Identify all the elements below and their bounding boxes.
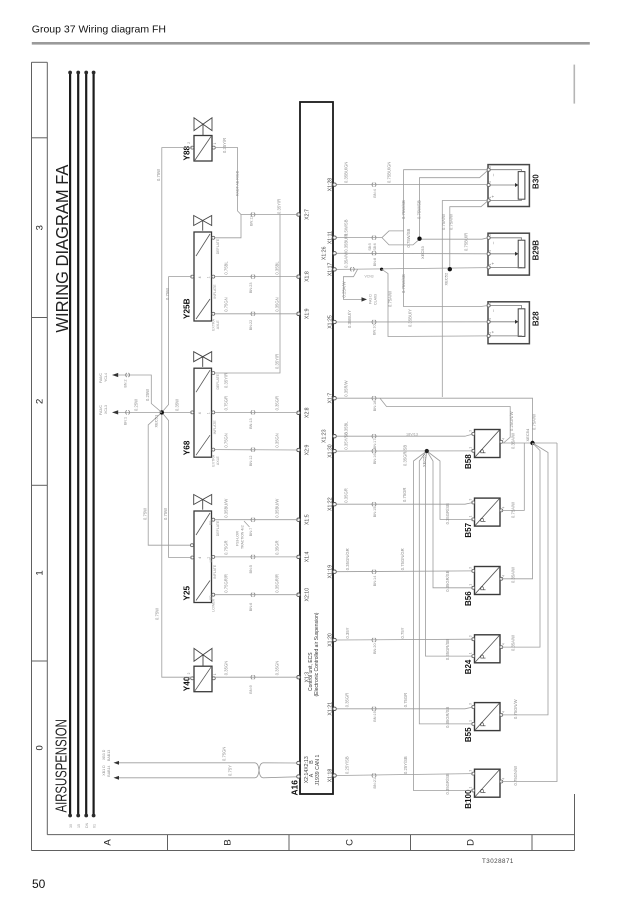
svg-text:Group 37 Wiring diagram FH: Group 37 Wiring diagram FH xyxy=(32,23,166,35)
svg-text:1: 1 xyxy=(469,652,473,654)
svg-text:0.35BU/Y: 0.35BU/Y xyxy=(408,309,413,327)
svg-text:YCL4: YCL4 xyxy=(104,373,108,382)
svg-text:X1:28: X1:28 xyxy=(327,178,333,192)
svg-text:XB3 D: XB3 D xyxy=(102,749,106,760)
svg-text:0.75A/W: 0.75A/W xyxy=(441,214,446,230)
svg-text:0.75BU/R: 0.75BU/R xyxy=(464,233,469,251)
svg-text:0.35GN: 0.35GN xyxy=(275,433,280,447)
svg-text:XEC55: XEC55 xyxy=(421,454,426,467)
svg-text:SB:6: SB:6 xyxy=(373,243,377,250)
svg-text:0.75A/W: 0.75A/W xyxy=(531,414,536,430)
svg-text:0.75GN/W: 0.75GN/W xyxy=(513,699,518,719)
svg-text:0.35Y/R: 0.35Y/R xyxy=(275,354,280,369)
svg-text:0.35GR: 0.35GR xyxy=(345,693,350,707)
svg-text:RADT AB RIGD: RADT AB RIGD xyxy=(236,170,240,196)
svg-text:0.25W: 0.25W xyxy=(134,399,139,411)
svg-text:0.35GR: 0.35GR xyxy=(344,488,349,502)
svg-text:3: 3 xyxy=(469,703,473,705)
svg-text:2: 2 xyxy=(187,142,191,144)
svg-text:4: 4 xyxy=(502,506,506,508)
svg-text:0.25Y/SB: 0.25Y/SB xyxy=(345,756,350,774)
svg-text:X2:7: X2:7 xyxy=(304,209,310,220)
svg-text:X1:7: X1:7 xyxy=(327,393,333,404)
svg-text:EXTRA: EXTRA xyxy=(212,318,216,330)
svg-text:1: 1 xyxy=(213,143,217,145)
svg-text:1: 1 xyxy=(469,515,473,517)
svg-text:0.35BU/R: 0.35BU/R xyxy=(344,234,349,252)
svg-text:BN:22: BN:22 xyxy=(249,320,253,331)
svg-text:0.35Y/R: 0.35Y/R xyxy=(277,199,282,214)
svg-text:0.35GN: 0.35GN xyxy=(275,661,280,675)
svg-text:4: 4 xyxy=(502,778,506,780)
svg-text:1: 1 xyxy=(469,447,473,449)
svg-text:0.35GR/SB: 0.35GR/SB xyxy=(403,445,408,466)
svg-text:0.75W: 0.75W xyxy=(143,508,148,520)
svg-text:0.35GN: 0.35GN xyxy=(224,661,229,675)
svg-text:0.35GR/SB: 0.35GR/SB xyxy=(445,707,450,728)
svg-text:J1939 CAN 1: J1939 CAN 1 xyxy=(315,755,321,786)
svg-text:X2:9: X2:9 xyxy=(304,445,310,456)
svg-text:Y25B: Y25B xyxy=(183,298,192,319)
svg-text:0.5W/SB: 0.5W/SB xyxy=(344,219,349,236)
svg-text:XEC51: XEC51 xyxy=(154,414,159,427)
svg-text:0: 0 xyxy=(35,745,46,750)
svg-text:1: 1 xyxy=(469,720,473,722)
svg-text:0.75W: 0.75W xyxy=(163,508,168,520)
svg-text:4: 4 xyxy=(488,181,492,183)
svg-text:X1:20: X1:20 xyxy=(327,633,333,647)
svg-text:4: 4 xyxy=(198,412,202,414)
svg-text:B29B: B29B xyxy=(532,240,541,261)
svg-text:0.35Y/R: 0.35Y/R xyxy=(224,373,229,388)
svg-text:CLA63: CLA63 xyxy=(374,294,378,305)
svg-text:FA6/C: FA6/C xyxy=(99,373,103,383)
svg-text:1: 1 xyxy=(35,570,46,575)
svg-text:3: 3 xyxy=(35,225,46,230)
svg-text:X1:11: X1:11 xyxy=(327,231,333,244)
svg-text:X1:9: X1:9 xyxy=(304,308,310,319)
svg-text:T3028871: T3028871 xyxy=(482,858,514,865)
svg-text:BN:15: BN:15 xyxy=(373,507,377,518)
svg-text:X1:22: X1:22 xyxy=(327,497,333,511)
svg-text:A: A xyxy=(102,839,113,846)
svg-text:1: 1 xyxy=(488,332,492,334)
svg-text:B55: B55 xyxy=(464,727,473,742)
svg-text:DEFLATE: DEFLATE xyxy=(216,238,220,254)
svg-text:BN:19: BN:19 xyxy=(373,711,377,722)
svg-text:0.35W: 0.35W xyxy=(175,399,180,411)
svg-text:0.35GR/R: 0.35GR/R xyxy=(275,574,280,593)
svg-text:B58: B58 xyxy=(464,454,473,469)
svg-text:0.35BU/W: 0.35BU/W xyxy=(224,499,229,518)
svg-text:4: 4 xyxy=(488,318,492,320)
svg-text:X2:10: X2:10 xyxy=(304,588,310,602)
svg-text:X1:21: X1:21 xyxy=(327,702,333,716)
svg-text:B: B xyxy=(222,839,233,845)
svg-text:0.75GR/R: 0.75GR/R xyxy=(224,574,229,593)
svg-text:XEC53: XEC53 xyxy=(420,246,425,259)
svg-text:B24: B24 xyxy=(464,659,473,674)
svg-text:0.75A/W: 0.75A/W xyxy=(388,291,393,307)
svg-text:WIRING DIAGRAM FA: WIRING DIAGRAM FA xyxy=(52,164,71,333)
svg-text:SB:5: SB:5 xyxy=(368,243,372,250)
svg-text:4: 4 xyxy=(198,276,202,278)
svg-text:50: 50 xyxy=(32,877,46,891)
svg-text:BN:5: BN:5 xyxy=(249,565,253,573)
svg-text:BN:13: BN:13 xyxy=(249,418,253,429)
svg-text:1: 1 xyxy=(213,673,217,675)
svg-text:0.75W/SB: 0.75W/SB xyxy=(406,228,411,247)
svg-text:EXTRA: EXTRA xyxy=(212,454,216,466)
svg-text:P: P xyxy=(479,586,488,591)
svg-text:4: 4 xyxy=(502,575,506,577)
svg-text:XEC52: XEC52 xyxy=(443,272,448,285)
svg-text:P: P xyxy=(479,654,488,659)
svg-text:1: 1 xyxy=(469,584,473,586)
svg-text:BN:21: BN:21 xyxy=(373,778,377,789)
svg-text:0.35R/W: 0.35R/W xyxy=(344,380,349,396)
svg-text:INFLATE: INFLATE xyxy=(213,564,217,579)
svg-text:0.35A/W: 0.35A/W xyxy=(510,635,515,651)
svg-text:X1:4: X1:4 xyxy=(304,551,310,562)
svg-text:X1:26: X1:26 xyxy=(321,246,327,260)
svg-text:A16: A16 xyxy=(290,780,300,796)
svg-text:INFLATE: INFLATE xyxy=(213,420,217,435)
svg-text:0.35GR/SB: 0.35GR/SB xyxy=(445,503,450,524)
svg-text:X2:8: X2:8 xyxy=(304,407,310,418)
svg-text:X1:5: X1:5 xyxy=(304,514,310,525)
svg-text:B28: B28 xyxy=(532,311,541,326)
svg-text:0.75A/W: 0.75A/W xyxy=(448,214,453,230)
svg-text:BN:14: BN:14 xyxy=(373,576,377,587)
svg-text:15: 15 xyxy=(77,824,81,828)
svg-text:0.75GR: 0.75GR xyxy=(224,396,229,410)
svg-text:2: 2 xyxy=(488,302,492,304)
svg-text:0.25A/W: 0.25A/W xyxy=(342,281,347,297)
svg-text:BN:1: BN:1 xyxy=(124,417,128,425)
svg-text:AIRSUSPENSION: AIRSUSPENSION xyxy=(52,719,70,812)
svg-text:XCL3: XCL3 xyxy=(104,405,108,414)
svg-text:0.75W: 0.75W xyxy=(156,169,161,181)
svg-text:(Electronic Controlled air Sus: (Electronic Controlled air Suspension) xyxy=(314,612,320,696)
svg-text:0.75GR: 0.75GR xyxy=(224,540,229,554)
svg-text:0.75GN: 0.75GN xyxy=(224,433,229,447)
svg-text:BN:7: BN:7 xyxy=(249,528,253,536)
svg-text:0.35GN/GR: 0.35GN/GR xyxy=(345,548,350,570)
svg-text:0.35Y: 0.35Y xyxy=(345,627,350,638)
svg-text:BN:12: BN:12 xyxy=(249,456,253,467)
svg-text:X1:23: X1:23 xyxy=(321,429,327,443)
svg-text:X1:30: X1:30 xyxy=(327,444,333,458)
svg-text:3: 3 xyxy=(469,499,473,501)
svg-text:1: 1 xyxy=(469,787,473,789)
svg-text:BAB13: BAB13 xyxy=(107,750,111,761)
svg-text:0.75GR: 0.75GR xyxy=(403,693,408,707)
svg-text:2: 2 xyxy=(488,234,492,236)
svg-text:0.75W/SB: 0.75W/SB xyxy=(401,200,406,219)
svg-text:0.75GR: 0.75GR xyxy=(402,488,407,502)
svg-text:4: 4 xyxy=(502,643,506,645)
svg-text:UD: UD xyxy=(209,595,213,600)
svg-text:0.35BU/Y: 0.35BU/Y xyxy=(347,310,352,328)
svg-text:0.75W/SB: 0.75W/SB xyxy=(401,274,406,293)
svg-text:FS3-LOW: FS3-LOW xyxy=(236,530,240,546)
svg-text:B56: B56 xyxy=(464,591,473,606)
svg-text:0.35A/W: 0.35A/W xyxy=(344,252,349,268)
svg-text:0.75GN/W: 0.75GN/W xyxy=(513,766,518,786)
svg-text:Y25: Y25 xyxy=(183,585,192,600)
svg-text:1: 1 xyxy=(488,263,492,265)
svg-text:AXLE: AXLE xyxy=(216,455,220,465)
svg-text:0.35BL: 0.35BL xyxy=(275,261,280,275)
svg-text:0.35GN: 0.35GN xyxy=(275,297,280,311)
svg-text:BN:20: BN:20 xyxy=(373,643,377,654)
svg-text:B57: B57 xyxy=(464,522,473,537)
svg-text:2: 2 xyxy=(488,166,492,168)
svg-text:X1:25: X1:25 xyxy=(327,315,333,329)
svg-text:C: C xyxy=(344,839,355,846)
svg-text:18V/13: 18V/13 xyxy=(406,433,418,437)
svg-text:4: 4 xyxy=(198,557,202,559)
svg-text:61: 61 xyxy=(93,824,97,828)
svg-text:0.35Y/SB: 0.35Y/SB xyxy=(344,432,349,450)
svg-text:0.75Y: 0.75Y xyxy=(228,765,233,776)
svg-text:BN:8: BN:8 xyxy=(373,258,377,266)
svg-text:DN: DN xyxy=(85,822,89,828)
svg-text:0.35GR: 0.35GR xyxy=(275,540,280,554)
svg-text:4: 4 xyxy=(488,250,492,252)
svg-text:INFLATE: INFLATE xyxy=(213,284,217,299)
svg-text:30: 30 xyxy=(69,824,73,828)
svg-text:0.75GN: 0.75GN xyxy=(222,747,227,761)
svg-text:0.35GR/SB: 0.35GR/SB xyxy=(445,570,450,591)
svg-text:0.75BU/GN: 0.75BU/GN xyxy=(387,162,392,183)
svg-text:BN:17: BN:17 xyxy=(373,439,377,450)
svg-text:TRACTION 4x2: TRACTION 4x2 xyxy=(241,525,245,549)
svg-text:1: 1 xyxy=(207,412,211,414)
svg-text:0.35BU/GN: 0.35BU/GN xyxy=(344,162,349,183)
svg-text:Y40: Y40 xyxy=(183,676,192,691)
svg-text:BN:9: BN:9 xyxy=(249,685,253,693)
svg-text:AXLE: AXLE xyxy=(216,320,220,330)
svg-text:0.75GN: 0.75GN xyxy=(224,297,229,311)
svg-text:0.25W: 0.25W xyxy=(145,389,150,401)
svg-text:0.75A/W: 0.75A/W xyxy=(511,502,516,518)
svg-text:VCN3: VCN3 xyxy=(365,275,374,279)
svg-text:0.75W: 0.75W xyxy=(155,608,160,620)
svg-text:3: 3 xyxy=(469,770,473,772)
svg-text:2: 2 xyxy=(35,399,46,404)
svg-text:BN:23: BN:23 xyxy=(249,283,253,294)
svg-text:DEFLATE: DEFLATE xyxy=(216,373,220,389)
svg-text:0.35GR/SB: 0.35GR/SB xyxy=(445,773,450,794)
svg-text:Y68: Y68 xyxy=(183,440,192,455)
svg-text:3: 3 xyxy=(469,635,473,637)
svg-text:X1:3: X1:3 xyxy=(304,672,310,683)
svg-text:XEC54: XEC54 xyxy=(525,428,530,441)
svg-text:DEFLATE: DEFLATE xyxy=(216,520,220,536)
svg-text:X1:19: X1:19 xyxy=(327,565,333,579)
svg-text:0.35GR: 0.35GR xyxy=(275,396,280,410)
svg-text:RB: RB xyxy=(209,520,213,525)
svg-text:0.75W: 0.75W xyxy=(165,288,170,300)
svg-text:3: 3 xyxy=(469,567,473,569)
svg-text:FA3/C: FA3/C xyxy=(99,405,103,415)
svg-text:0.35GR/SB: 0.35GR/SB xyxy=(445,639,450,660)
svg-text:X1:17: X1:17 xyxy=(327,263,333,277)
svg-text:P: P xyxy=(479,449,488,454)
svg-text:B30: B30 xyxy=(532,174,541,189)
svg-text:P: P xyxy=(479,517,488,522)
svg-text:P: P xyxy=(479,788,488,793)
svg-text:0.75Y: 0.75Y xyxy=(400,627,405,638)
svg-text:0.75GN/GR: 0.75GN/GR xyxy=(400,548,405,570)
svg-text:BAB14: BAB14 xyxy=(107,765,111,776)
svg-text:0.35BU/W: 0.35BU/W xyxy=(275,499,280,518)
svg-text:1: 1 xyxy=(207,276,211,278)
svg-text:0.35Y/R: 0.35Y/R xyxy=(222,138,227,153)
svg-text:0.25GN/W: 0.25GN/W xyxy=(509,411,514,431)
svg-text:XB1 D: XB1 D xyxy=(102,765,106,776)
svg-text:3: 3 xyxy=(469,430,473,432)
svg-text:BN:11: BN:11 xyxy=(250,216,254,226)
svg-text:4: 4 xyxy=(502,438,506,440)
svg-text:BN:18: BN:18 xyxy=(373,401,377,412)
svg-text:0.75W/SB: 0.75W/SB xyxy=(417,200,422,219)
svg-text:BN:6: BN:6 xyxy=(249,603,253,611)
svg-text:4: 4 xyxy=(502,711,506,713)
svg-text:FA3 D: FA3 D xyxy=(369,294,373,304)
svg-text:D: D xyxy=(465,839,476,846)
svg-text:0.35A/W: 0.35A/W xyxy=(510,433,515,449)
svg-text:P: P xyxy=(479,722,488,727)
svg-text:LR: LR xyxy=(209,558,213,563)
svg-text:2: 2 xyxy=(187,672,191,674)
svg-text:1: 1 xyxy=(488,196,492,198)
svg-text:0.75BL: 0.75BL xyxy=(224,261,229,275)
svg-text:X1:18: X1:18 xyxy=(327,769,333,783)
svg-text:0.25Y/SB: 0.25Y/SB xyxy=(403,756,408,774)
svg-text:BN:4: BN:4 xyxy=(373,189,377,197)
svg-text:BN:16: BN:16 xyxy=(373,454,377,465)
svg-text:B100: B100 xyxy=(464,789,473,809)
svg-text:BN:2: BN:2 xyxy=(124,380,128,388)
svg-text:BN:10: BN:10 xyxy=(373,324,377,335)
svg-text:0.35A/W: 0.35A/W xyxy=(510,567,515,583)
svg-text:X1:8: X1:8 xyxy=(304,271,310,282)
